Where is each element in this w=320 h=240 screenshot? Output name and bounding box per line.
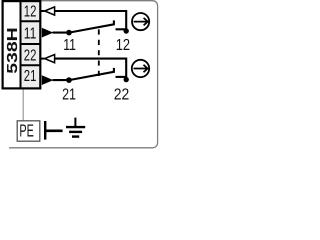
positive-opening arrow circle (lower) [132, 60, 149, 77]
ground stem [74, 118, 76, 128]
blade end tick (upper) [113, 20, 115, 25]
svg-text:12: 12 [24, 3, 37, 20]
svg-text:21: 21 [62, 86, 76, 103]
connector open arrow 22 [45, 55, 55, 63]
switch body 538H [3, 1, 41, 88]
svg-text:11: 11 [63, 37, 76, 54]
svg-text:538H: 538H [5, 27, 21, 74]
PE wire [45, 130, 62, 133]
svg-text:11: 11 [24, 26, 37, 43]
svg-text:22: 22 [24, 48, 37, 65]
svg-text:12: 12 [116, 37, 130, 54]
ground bar 2 [69, 131, 82, 133]
wire 22 to contact [55, 59, 126, 80]
fixed contact dot (lower) [124, 77, 129, 82]
positive-opening arrow circle (upper) [132, 13, 149, 30]
blade end tick (lower) [113, 68, 115, 73]
wire 11 to pivot [53, 32, 71, 34]
mechanical link dashed [98, 29, 100, 76]
stub wire terminal 12 [40, 10, 44, 12]
terminal divider 12/11 [21, 20, 41, 22]
ground bar 1 [66, 126, 85, 128]
connector open arrow 12 [45, 7, 55, 15]
wire 21 to pivot [53, 79, 71, 81]
body divider [20, 1, 22, 88]
svg-text:22: 22 [114, 86, 130, 103]
fixed contact dot (upper) [124, 28, 129, 33]
svg-text:PE: PE [19, 120, 33, 140]
fixed contact foot (upper) [116, 28, 127, 30]
contact blade NC 11-12 [69, 24, 114, 32]
terminal cells fill [22, 2, 40, 87]
contact blade NC 21-22 [69, 72, 114, 80]
connector solid arrow 11 [42, 28, 54, 38]
PE box [17, 121, 40, 141]
svg-text:21: 21 [24, 68, 37, 85]
stub wire terminal 22 [40, 58, 44, 60]
terminal divider 22/21 [21, 64, 41, 66]
fixed contact foot (lower) [116, 76, 127, 78]
ground bar 3 [72, 135, 79, 137]
terminal divider 11/22 [21, 43, 41, 45]
pivot dot (upper) [66, 30, 72, 36]
PE drop wire [22, 90, 24, 122]
connector solid arrow 21 [42, 75, 54, 85]
PE connector bar [44, 121, 46, 140]
wire 12 to contact [55, 11, 126, 31]
pivot dot (lower) [66, 77, 72, 83]
